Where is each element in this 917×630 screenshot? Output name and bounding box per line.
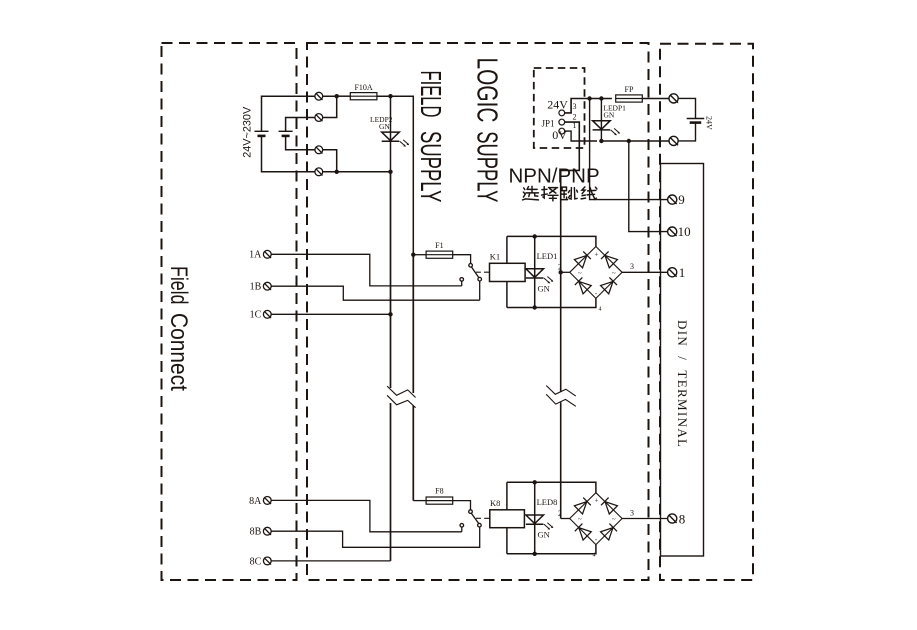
wire 8C to field return	[271, 560, 390, 562]
svg-text:SUPPLY: SUPPLY	[470, 131, 502, 202]
JP1 pin 3	[559, 110, 565, 116]
junction LED8 cathode	[533, 552, 537, 556]
wire battery B2 negative to terminal T3	[286, 136, 315, 150]
terminal 8B	[263, 527, 271, 535]
LED LED1	[526, 269, 553, 284]
break mark on field feeder pair	[387, 386, 416, 408]
wire LEDP1 vertical	[600, 99, 602, 142]
junction 1C on return	[388, 312, 392, 316]
svg-text:F8: F8	[435, 487, 443, 496]
wire K1 coil top to rail	[506, 236, 508, 263]
wire K1 coil bottom to rail	[506, 282, 508, 308]
svg-text:1C: 1C	[250, 310, 262, 321]
wire logic 0V rail to supply terminal bottom	[601, 140, 669, 142]
wire F8 to switch SW8	[453, 501, 471, 510]
wire bridge D8 AC right to terminal 8	[622, 518, 668, 520]
svg-text:3: 3	[630, 508, 634, 517]
wire battery BP to supply terminal bottom	[678, 123, 695, 141]
junction F1 tap	[411, 253, 415, 257]
junction LED1 cathode	[533, 305, 537, 309]
wire 8B to switch pole	[271, 527, 480, 547]
svg-text:GN: GN	[379, 122, 390, 131]
svg-text:K8: K8	[490, 498, 500, 508]
svg-text:F1: F1	[435, 241, 443, 250]
terminal block rectangle	[661, 164, 704, 557]
wire pin1 to logic 0V rail	[565, 131, 597, 141]
junction LEDP2 cathode rail	[388, 170, 392, 174]
wire pin2 to select line	[561, 122, 580, 272]
svg-text:10: 10	[678, 224, 691, 239]
wire K8 coil top to rail	[506, 482, 508, 510]
svg-text:8C: 8C	[250, 556, 262, 567]
wire F10A output to field 24V drop	[377, 96, 413, 255]
svg-text:8B: 8B	[250, 527, 262, 538]
svg-text:LOGIC: LOGIC	[470, 58, 502, 123]
bridge D8 diode top-right	[601, 497, 618, 514]
svg-text:9: 9	[678, 192, 685, 207]
wire LED1 vertical	[534, 236, 536, 307]
wire bridge D8 AC left elbow from select line	[561, 518, 570, 520]
junction LEDP1 anode	[599, 96, 603, 100]
svg-text:JP1: JP1	[542, 119, 555, 129]
svg-text:24V~230V: 24V~230V	[242, 106, 254, 158]
wire channel1 top rail to bridge plus	[507, 236, 596, 246]
svg-text:~: ~	[612, 269, 616, 277]
terminal 8	[668, 514, 677, 523]
wire 1A to switch NO contact	[271, 254, 462, 286]
terminal 10	[668, 227, 677, 236]
JP1 pin 2	[559, 119, 565, 125]
wire channel8 bottom rail to bridge minus	[507, 545, 596, 554]
wire feeder to fuse F8	[413, 500, 426, 502]
fuse F1	[426, 251, 453, 258]
svg-text:3: 3	[573, 102, 577, 111]
svg-text:GN: GN	[538, 530, 550, 540]
svg-text:~: ~	[578, 516, 582, 524]
bridge D1 diode bottom-left	[575, 277, 592, 294]
svg-text:~: ~	[578, 269, 582, 277]
switch SW1	[460, 264, 482, 301]
junction LEDP1 cathode	[599, 139, 603, 143]
wire battery B1 positive to terminal T1	[262, 96, 315, 131]
svg-text:Field: Field	[165, 266, 192, 305]
svg-text:F10A: F10A	[354, 83, 372, 92]
wire K8 coil bottom to rail	[506, 528, 508, 554]
svg-text:GN: GN	[604, 110, 615, 119]
wire 8A to switch NO contact	[271, 500, 462, 531]
junction LED8 anode	[533, 480, 537, 484]
supply terminal bottom	[669, 136, 678, 145]
battery cell B2 plates	[279, 131, 293, 136]
wire channel8 top rail to bridge plus	[507, 482, 596, 492]
terminal T3	[315, 146, 323, 154]
wire battery B1 negative to terminal T4	[262, 136, 315, 172]
terminal 8A	[263, 497, 271, 505]
terminal 1C	[263, 310, 271, 318]
terminal 1	[668, 268, 677, 277]
wire bridge D1 AC left to select line	[561, 271, 570, 273]
wire logic 24V down to terminal 9	[590, 99, 668, 200]
terminal 9	[668, 195, 677, 204]
bridge rectifier D8 outline	[570, 493, 622, 545]
bridge D1 diode bottom-right	[601, 277, 618, 294]
svg-text:8A: 8A	[249, 496, 262, 507]
supply/logic dashed box	[307, 43, 649, 580]
svg-text:3: 3	[630, 262, 634, 271]
link SW8 to relay K8	[476, 517, 490, 519]
svg-text:+: +	[595, 251, 599, 259]
LED LEDP2	[382, 132, 409, 147]
DIN terminal dashed box	[660, 44, 753, 580]
wire battery B2 positive to terminal T2	[286, 118, 315, 132]
JP1 dashed box	[534, 68, 585, 148]
fuse FP	[616, 95, 643, 102]
LED LED8	[526, 515, 553, 530]
svg-text:+: +	[595, 497, 599, 505]
svg-text:LED1: LED1	[537, 251, 558, 261]
terminal T1	[315, 92, 323, 100]
svg-text:LED8: LED8	[537, 497, 558, 507]
label Field Connect	[165, 266, 192, 391]
wire 1C to field return	[271, 313, 390, 315]
svg-text:1: 1	[679, 265, 686, 280]
wire FP to supply terminal top	[642, 98, 669, 100]
wire channel1 bottom rail to bridge minus	[507, 298, 596, 307]
label jumper chinese 跳	[561, 187, 577, 200]
wire select line channel1 to channel8 with break	[560, 272, 562, 518]
bridge D8 diode top-left	[574, 497, 591, 514]
svg-text:24V: 24V	[705, 116, 714, 130]
fuse F8	[426, 497, 453, 504]
junction logic 24V at T9 drop	[587, 96, 591, 100]
terminal T4	[315, 168, 323, 176]
svg-text:8: 8	[679, 511, 686, 526]
terminal 8C	[263, 557, 271, 565]
wire field 0V return (LEDP2 rail down to 8C)	[390, 172, 392, 561]
label FIELD SUPPLY	[414, 71, 446, 203]
wire LED8 vertical	[534, 482, 536, 554]
svg-text:~: ~	[612, 516, 616, 524]
svg-text:1B: 1B	[250, 282, 262, 293]
wire F1 to switch SW1	[453, 255, 471, 264]
bridge D1 polarity marks	[578, 251, 616, 313]
junction LED1 anode	[533, 234, 537, 238]
junction T3/T4	[335, 170, 339, 174]
svg-text:DIN / TERMINAL: DIN / TERMINAL	[675, 320, 690, 447]
junction T1/T2	[335, 94, 339, 98]
label jumper chinese 线	[581, 187, 597, 199]
bridge D8 polarity marks	[578, 497, 616, 559]
wire LEDP2 vertical	[390, 96, 392, 172]
label jumper chinese 选	[523, 186, 539, 200]
svg-text:SUPPLY: SUPPLY	[414, 131, 446, 203]
relay K1 coil box	[490, 263, 526, 281]
bridge D8 diode bottom-right	[601, 523, 618, 540]
label jumper chinese 择	[542, 187, 558, 201]
link SW1 to relay K1	[476, 271, 490, 273]
bridge D1 diode top-right	[601, 251, 618, 268]
wire feeder to fuse F1	[413, 254, 426, 256]
wire T1 to fuse F10A with T2 jumper	[323, 96, 338, 117]
terminal 1B	[263, 282, 271, 290]
svg-text:24V: 24V	[547, 97, 568, 111]
svg-text:4: 4	[599, 307, 602, 313]
relay K8 coil box	[490, 510, 525, 528]
break mark on select line	[546, 386, 576, 407]
svg-text:2: 2	[573, 112, 577, 121]
svg-text:4: 4	[593, 553, 596, 559]
Field Connect dashed box	[162, 43, 297, 580]
wire T4 rail with T3 jumper	[323, 150, 391, 172]
svg-text:K1: K1	[490, 252, 500, 262]
svg-text:NPN/PNP: NPN/PNP	[509, 164, 600, 187]
svg-text:Connect: Connect	[165, 313, 192, 391]
junction select line channel1	[559, 270, 563, 274]
bridge D8 diode bottom-left	[575, 523, 592, 540]
wire supply terminal top to battery BP	[678, 98, 695, 118]
wire F10A input	[337, 95, 351, 97]
LED LEDP1	[593, 121, 620, 136]
terminal T2	[315, 114, 323, 122]
junction 0V at T10 drop	[627, 139, 631, 143]
supply terminal top	[669, 94, 678, 103]
wire pin3 to logic 24V rail	[565, 99, 612, 113]
svg-text:1A: 1A	[249, 250, 262, 261]
svg-text:FIELD: FIELD	[414, 71, 446, 118]
battery cell B1 plates	[255, 131, 269, 136]
wire field 24V feeder (F10A to F1/F8)	[412, 255, 414, 501]
wire 0V down to terminal 10	[629, 141, 668, 232]
svg-text:FP: FP	[625, 85, 634, 94]
wire bridge D1 AC right to terminal 1	[622, 271, 668, 273]
svg-text:GN: GN	[538, 283, 550, 293]
junction LEDP2 anode	[388, 94, 392, 98]
terminal 1A	[263, 250, 271, 258]
switch SW8	[460, 510, 481, 532]
wire 1B to switch pole	[271, 286, 480, 300]
fuse F10A	[350, 93, 377, 100]
bridge D1 diode top-left	[574, 251, 591, 268]
bridge rectifier D1 outline	[570, 247, 622, 299]
battery BP 24V plates	[687, 119, 705, 123]
label LOGIC SUPPLY	[470, 58, 502, 203]
JP1 pin 1	[559, 128, 565, 134]
